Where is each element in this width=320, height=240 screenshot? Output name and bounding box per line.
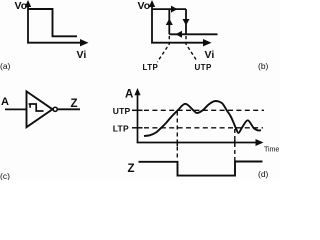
svg-text:Z: Z [71, 98, 78, 110]
hysteresis glyph inside triangle [29, 104, 44, 111]
x-axis (b) [151, 42, 207, 44]
LTP dashed threshold line [144, 127, 263, 129]
svg-text:Z: Z [128, 163, 135, 175]
input signal curve A [144, 101, 261, 136]
x-axis arrowhead (b) [203, 39, 212, 46]
x-axis (a) [27, 42, 84, 44]
tick crossing time axis at first crossing [176, 140, 178, 147]
svg-text:A: A [125, 89, 133, 101]
svg-text:UTP: UTP [195, 63, 212, 72]
UTP tick on axis [132, 109, 143, 111]
output wire Z [57, 108, 80, 110]
hysteresis loop bottom segment [169, 33, 217, 35]
svg-text:(b): (b) [258, 61, 269, 71]
svg-text:A: A [1, 96, 9, 108]
x-axis arrowhead (d) [256, 139, 264, 146]
svg-text:UTP: UTP [113, 106, 131, 116]
svg-text:(a): (a) [0, 61, 11, 71]
y-axis (b) [151, 3, 153, 44]
svg-text:LTP: LTP [143, 63, 159, 72]
arrow down on right vertical [183, 19, 190, 26]
output waveform Z [139, 162, 263, 176]
inversion bubble [53, 107, 57, 111]
dashed leader from LTP point [157, 36, 169, 62]
input wire A [5, 108, 27, 110]
arrow right on top segment [171, 6, 178, 13]
dashed leader from UTP point [186, 36, 197, 62]
svg-text:(c): (c) [0, 171, 10, 180]
svg-text:(d): (d) [258, 169, 269, 179]
tick crossing time axis at second crossing [234, 140, 236, 147]
svg-text:Time: Time [264, 147, 279, 154]
svg-text:Vi: Vi [205, 49, 215, 61]
y-axis (a) [27, 3, 29, 44]
x-axis Time (d) [137, 142, 259, 144]
hysteresis loop top segment [152, 8, 186, 10]
svg-text:Vi: Vi [77, 49, 87, 61]
hysteresis loop left vertical (rises at LTP) [168, 9, 170, 34]
inverter triangle U1 [27, 91, 53, 127]
UTP dashed threshold line [144, 109, 264, 111]
dashed marker at LTP down-crossing [234, 129, 236, 161]
arrow left on bottom segment [176, 31, 183, 38]
hysteresis loop right vertical (falls at UTP) [185, 9, 187, 34]
y-axis arrowhead (a) [25, 0, 31, 7]
y-axis (d) [137, 92, 139, 143]
x-axis arrowhead (a) [80, 39, 89, 46]
y-axis arrowhead (d) [134, 88, 140, 95]
y-axis arrowhead (b) [149, 0, 155, 7]
svg-text:Vo: Vo [138, 0, 151, 12]
dashed marker at first UTP crossing [176, 112, 178, 161]
svg-text:Vo: Vo [15, 0, 28, 12]
svg-text:LTP: LTP [113, 124, 129, 134]
transfer curve (a) [28, 9, 77, 36]
arrow up on left vertical [166, 19, 173, 26]
LTP tick on axis [132, 127, 143, 129]
